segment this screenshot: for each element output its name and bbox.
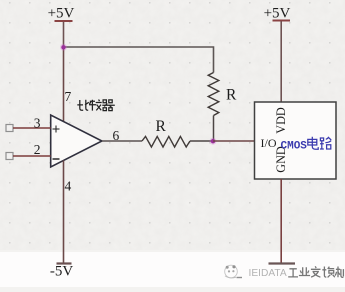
比: [77, 100, 89, 111]
svg-text:-5V: -5V: [50, 264, 73, 280]
wire port P1 to pin 3: [13, 127, 51, 129]
wire node A to pull-up resistor (top run): [64, 47, 214, 73]
ground bar: [269, 262, 296, 264]
wire pin 4 (V- supply): [63, 161, 65, 264]
R2 lead to node B: [213, 116, 215, 142]
watermark text 工业交换机: [288, 266, 343, 277]
node A junction: [60, 44, 67, 51]
op-amp U1 comparator: [51, 115, 102, 167]
node B junction: [210, 138, 217, 145]
机: [335, 267, 343, 278]
power +5V (left): [48, 6, 75, 22]
watermark logo: [225, 265, 242, 278]
port P2: [6, 153, 13, 160]
器: [102, 100, 115, 111]
svg-text:7: 7: [65, 89, 72, 104]
较: [89, 100, 96, 111]
业: [299, 267, 310, 275]
svg-text:3: 3: [34, 116, 41, 131]
resistor R1 (series): [142, 136, 190, 147]
路: [320, 137, 331, 149]
svg-text:R: R: [156, 118, 167, 135]
IC U2 CMOS circuit block: [255, 102, 337, 179]
wire VDD stem: [280, 21, 282, 102]
label CMOS电路: [281, 137, 332, 153]
label 比较器 (comparator): [77, 100, 115, 111]
resistor R2 (pull-up): [208, 73, 219, 116]
svg-text:IEIDATA: IEIDATA: [249, 268, 287, 279]
换: [322, 267, 335, 278]
wire +5V stem to node A: [63, 22, 65, 47]
power +5V (right): [264, 6, 291, 22]
svg-text:4: 4: [65, 179, 72, 194]
wire node B to I/O pin: [213, 140, 255, 142]
svg-text:R: R: [226, 87, 237, 104]
svg-text:6: 6: [113, 128, 120, 143]
wire R1 to node B: [190, 140, 213, 142]
wire output pin 6: [102, 140, 142, 142]
svg-text:2: 2: [34, 142, 41, 157]
svg-text:+5V: +5V: [264, 6, 291, 22]
power -5V: [50, 264, 73, 280]
电: [308, 137, 318, 150]
交: [311, 266, 321, 277]
工: [288, 269, 298, 277]
wire pin 7 (V+ supply to op-amp): [63, 47, 65, 122]
svg-text:CMOS: CMOS: [281, 141, 308, 153]
svg-text:VDD: VDD: [274, 107, 288, 134]
wire GND stem: [280, 179, 282, 263]
port P1: [6, 125, 13, 132]
svg-text:+5V: +5V: [48, 6, 75, 22]
wire port P2 to pin 2: [13, 155, 51, 157]
